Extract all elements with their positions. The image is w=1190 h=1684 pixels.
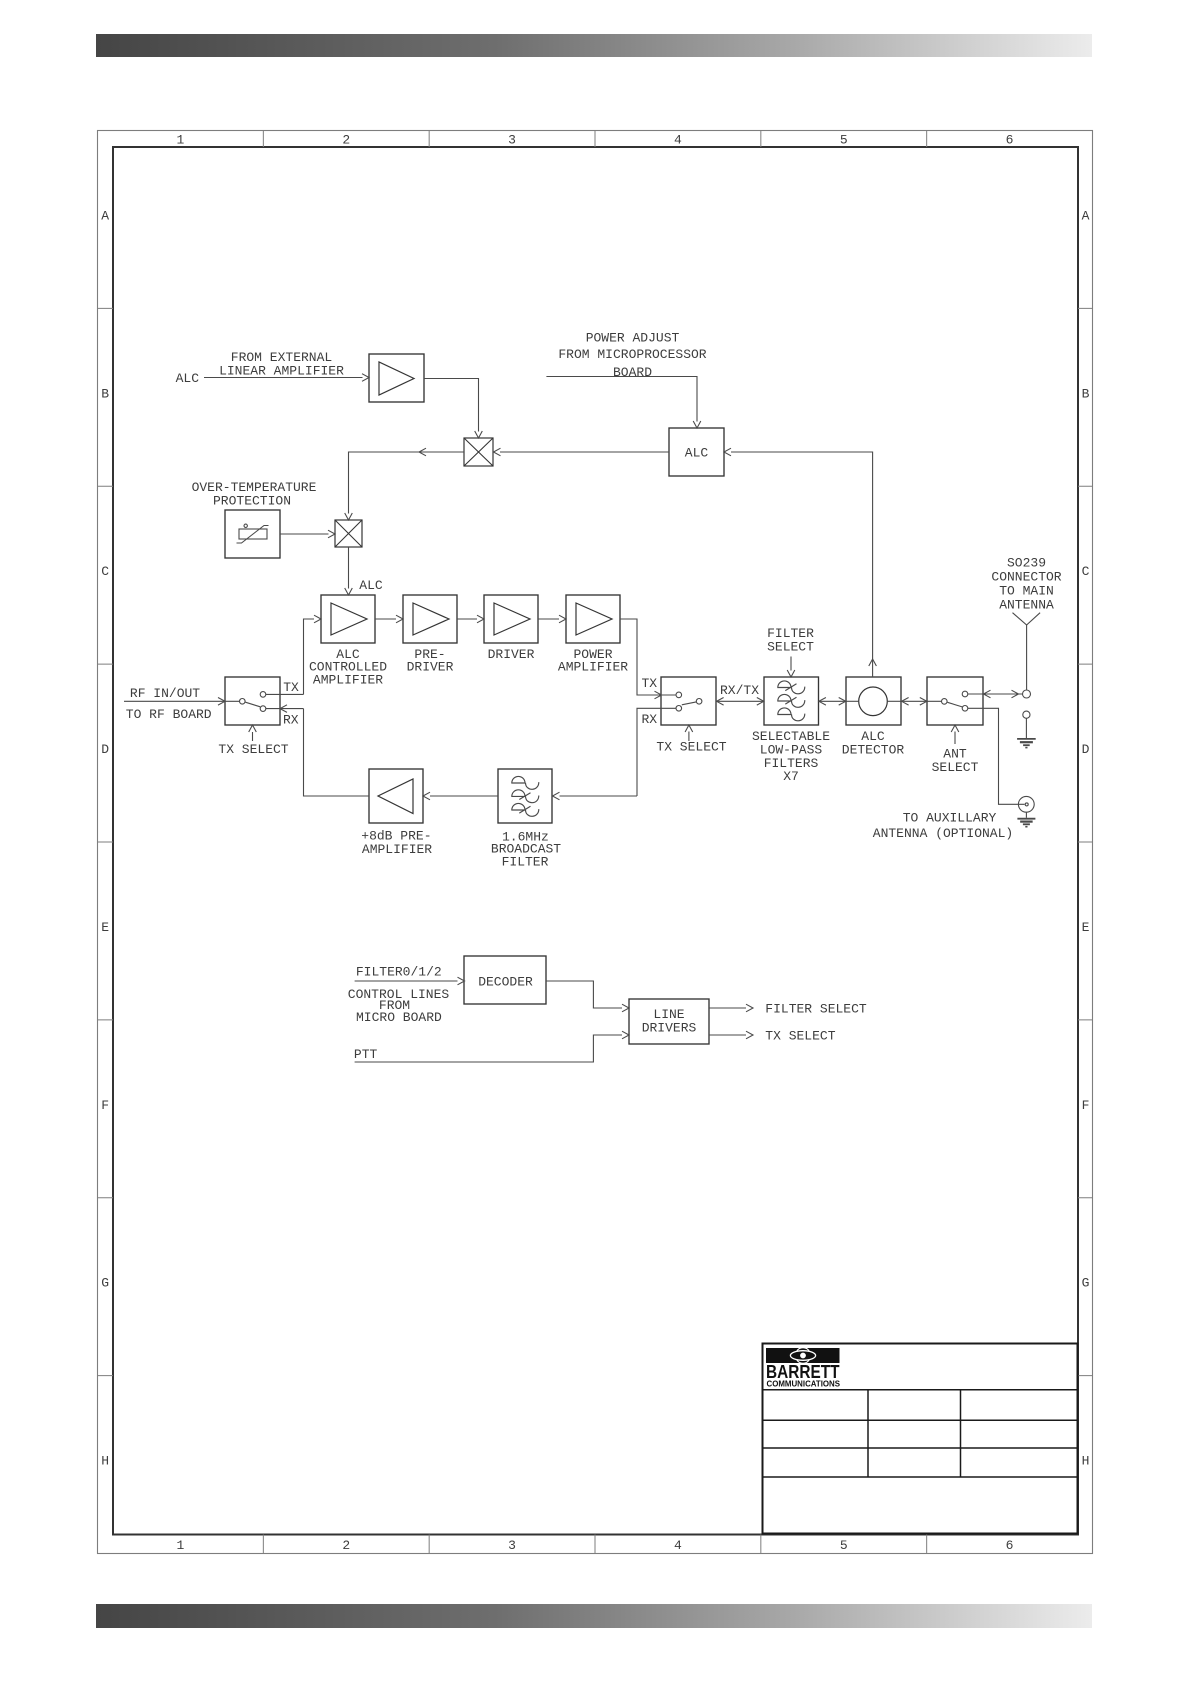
svg-text:COMMUNICATIONS: COMMUNICATIONS bbox=[767, 1378, 841, 1388]
svg-text:FROM MICROPROCESSOR: FROM MICROPROCESSOR bbox=[558, 347, 706, 362]
svg-text:B: B bbox=[101, 386, 109, 401]
svg-text:D: D bbox=[101, 742, 109, 757]
svg-text:1: 1 bbox=[177, 133, 185, 148]
svg-text:TX SELECT: TX SELECT bbox=[218, 742, 288, 757]
svg-text:G: G bbox=[1082, 1276, 1090, 1291]
svg-text:SO239: SO239 bbox=[1007, 556, 1046, 571]
svg-text:4: 4 bbox=[674, 133, 682, 148]
svg-text:DRIVER: DRIVER bbox=[407, 660, 454, 675]
svg-text:C: C bbox=[1082, 564, 1090, 579]
svg-text:DRIVER: DRIVER bbox=[488, 647, 535, 662]
svg-text:TX: TX bbox=[641, 676, 657, 691]
svg-text:5: 5 bbox=[840, 133, 848, 148]
svg-text:DECODER: DECODER bbox=[478, 975, 533, 990]
svg-text:DETECTOR: DETECTOR bbox=[842, 743, 905, 758]
svg-text:SELECT: SELECT bbox=[767, 639, 814, 654]
svg-text:TX SELECT: TX SELECT bbox=[656, 740, 726, 755]
svg-text:E: E bbox=[1082, 920, 1090, 935]
svg-text:A: A bbox=[101, 208, 109, 223]
svg-text:POWER ADJUST: POWER ADJUST bbox=[586, 330, 680, 345]
svg-text:RF IN/OUT: RF IN/OUT bbox=[130, 686, 200, 701]
svg-text:X7: X7 bbox=[783, 769, 799, 784]
svg-text:A: A bbox=[1082, 208, 1090, 223]
svg-text:DRIVERS: DRIVERS bbox=[642, 1021, 697, 1036]
svg-text:AMPLIFIER: AMPLIFIER bbox=[362, 842, 432, 857]
svg-text:4: 4 bbox=[674, 1538, 682, 1553]
svg-text:ALC: ALC bbox=[176, 371, 200, 386]
svg-text:FILTER: FILTER bbox=[502, 854, 549, 869]
svg-text:RX/TX: RX/TX bbox=[720, 683, 759, 698]
svg-text:MICRO BOARD: MICRO BOARD bbox=[356, 1010, 442, 1025]
svg-text:BOARD: BOARD bbox=[613, 365, 652, 380]
svg-text:AMPLIFIER: AMPLIFIER bbox=[313, 672, 383, 687]
svg-text:CONNECTOR: CONNECTOR bbox=[991, 570, 1061, 585]
svg-text:AMPLIFIER: AMPLIFIER bbox=[558, 660, 628, 675]
svg-text:ALC: ALC bbox=[359, 578, 383, 593]
svg-text:F: F bbox=[101, 1098, 109, 1113]
svg-text:E: E bbox=[101, 920, 109, 935]
svg-text:6: 6 bbox=[1006, 133, 1014, 148]
svg-text:PROTECTION: PROTECTION bbox=[213, 494, 291, 509]
svg-text:RX: RX bbox=[641, 712, 657, 727]
svg-text:D: D bbox=[1082, 742, 1090, 757]
svg-text:PTT: PTT bbox=[354, 1047, 378, 1062]
svg-text:TO RF BOARD: TO RF BOARD bbox=[126, 707, 212, 722]
svg-text:2: 2 bbox=[342, 1538, 350, 1553]
svg-text:F: F bbox=[1082, 1098, 1090, 1113]
svg-text:RX: RX bbox=[283, 713, 299, 728]
svg-text:TX SELECT: TX SELECT bbox=[765, 1029, 835, 1044]
svg-text:3: 3 bbox=[508, 133, 516, 148]
svg-text:ALC: ALC bbox=[685, 446, 709, 461]
svg-text:H: H bbox=[101, 1454, 109, 1469]
svg-text:SELECT: SELECT bbox=[932, 760, 979, 775]
svg-text:LINEAR AMPLIFIER: LINEAR AMPLIFIER bbox=[219, 364, 344, 379]
svg-text:TO MAIN: TO MAIN bbox=[999, 584, 1054, 599]
svg-text:3: 3 bbox=[508, 1538, 516, 1553]
svg-text:H: H bbox=[1082, 1454, 1090, 1469]
svg-text:G: G bbox=[101, 1276, 109, 1291]
svg-text:C: C bbox=[101, 564, 109, 579]
svg-text:TX: TX bbox=[283, 680, 299, 695]
svg-text:FILTER0/1/2: FILTER0/1/2 bbox=[356, 965, 442, 980]
svg-text:1: 1 bbox=[177, 1538, 185, 1553]
svg-text:ANTENNA (OPTIONAL): ANTENNA (OPTIONAL) bbox=[873, 826, 1013, 841]
svg-text:6: 6 bbox=[1006, 1538, 1014, 1553]
svg-text:5: 5 bbox=[840, 1538, 848, 1553]
svg-text:FILTER SELECT: FILTER SELECT bbox=[765, 1002, 867, 1017]
svg-text:2: 2 bbox=[342, 133, 350, 148]
svg-text:TO AUXILLARY: TO AUXILLARY bbox=[903, 811, 997, 826]
svg-text:B: B bbox=[1082, 386, 1090, 401]
svg-text:ANTENNA: ANTENNA bbox=[999, 598, 1054, 613]
